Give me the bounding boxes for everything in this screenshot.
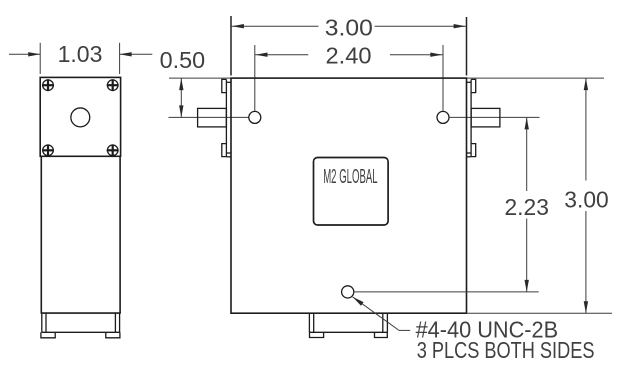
left flange plate bottom end xyxy=(226,156,231,158)
hole centerline right xyxy=(450,116,540,118)
right mounting hole xyxy=(437,111,449,123)
front base outer right xyxy=(386,313,388,332)
screw top-left xyxy=(42,79,54,91)
dim 0.50 arrow down xyxy=(179,105,183,117)
top edge extension line (left of box) xyxy=(169,77,231,79)
bottom hole centerline xyxy=(354,291,539,293)
front base inner left xyxy=(313,313,315,332)
bottom edge extension line (right of box) xyxy=(467,312,613,314)
svg-text:M2 GLOBAL: M2 GLOBAL xyxy=(323,166,377,188)
dim 2.23 arrow up xyxy=(525,117,529,129)
svg-text:0.50: 0.50 xyxy=(160,47,206,73)
right flange bottom tab xyxy=(471,144,476,157)
dim 3.00 top extension line right xyxy=(466,17,468,76)
base bottom edge xyxy=(42,331,120,333)
dim 3.00 right line lower segment xyxy=(585,211,587,313)
front base bottom edge xyxy=(309,331,387,333)
dim 3.00 top extension line left xyxy=(230,16,232,76)
bottom hole xyxy=(342,286,354,298)
dim 2.40 arrow right xyxy=(430,53,442,57)
svg-text:2.40: 2.40 xyxy=(326,43,372,69)
dim 1.03 extension line left xyxy=(39,43,41,74)
left flange top tab xyxy=(222,79,227,92)
dim 1.03 arrow right xyxy=(120,52,132,56)
dim 2.40 extension line right xyxy=(442,45,444,111)
svg-text:1.03: 1.03 xyxy=(58,41,103,67)
main box body xyxy=(231,78,467,313)
dim 1.03 arrow left xyxy=(28,52,40,56)
right flange plate edge xyxy=(470,79,472,156)
right flange plate bottom line xyxy=(467,152,472,154)
left connector body xyxy=(198,108,227,127)
dim 3.00 right arrow down xyxy=(584,301,588,313)
front left foot xyxy=(310,332,324,337)
right flange top tab xyxy=(471,79,476,92)
dim 2.23 arrow down xyxy=(525,280,529,292)
right flange plate top line xyxy=(467,81,472,83)
flange plate square xyxy=(40,77,120,156)
front right foot xyxy=(375,332,388,337)
dim 3.00 top line left segment xyxy=(231,25,319,27)
dim 2.40 arrow left xyxy=(256,53,268,57)
front base outer left xyxy=(308,313,310,332)
label plate M2 GLOBAL xyxy=(314,158,389,226)
right flange plate bottom end xyxy=(467,156,472,158)
svg-text:3.00: 3.00 xyxy=(564,186,608,212)
right connector body xyxy=(471,108,500,127)
dim 2.40 line left segment xyxy=(255,54,308,56)
left flange plate edge xyxy=(225,79,227,156)
dim 2.40 extension line left xyxy=(254,45,256,111)
base section outer left xyxy=(41,313,43,332)
left foot xyxy=(41,332,55,338)
right foot xyxy=(106,332,120,338)
leader line diagonal xyxy=(353,297,399,331)
svg-text:3.00: 3.00 xyxy=(325,15,373,41)
body bottom edge xyxy=(41,312,121,314)
dim 1.03 tail right xyxy=(120,53,153,55)
dim 1.03 extension line right xyxy=(119,43,121,74)
dim 3.00 right line upper segment xyxy=(585,78,587,180)
dim 3.00 top arrow left xyxy=(232,24,244,28)
body left edge xyxy=(40,156,42,313)
screw bottom-right xyxy=(107,144,119,156)
dim 3.00 top line right segment xyxy=(375,25,467,27)
screw top-right xyxy=(107,79,119,91)
svg-text:3 PLCS BOTH SIDES: 3 PLCS BOTH SIDES xyxy=(417,337,595,363)
leader line horizontal xyxy=(399,329,410,331)
dim 3.00 top arrow right xyxy=(454,24,466,28)
left flange plate bottom line xyxy=(226,152,231,154)
hole centerline left xyxy=(169,116,249,118)
dim 0.50 shaft xyxy=(180,78,182,117)
dim 0.50 arrow up xyxy=(179,78,183,90)
svg-text:2.23: 2.23 xyxy=(505,194,549,220)
dim 2.40 line right segment xyxy=(390,54,443,56)
base section inner left xyxy=(45,313,47,332)
left mounting hole xyxy=(249,111,261,123)
dim 3.00 right arrow up xyxy=(584,78,588,90)
flange center hole xyxy=(71,108,90,127)
leader arrowhead xyxy=(353,297,364,306)
front base inner right xyxy=(382,313,384,332)
top edge extension line (right of box) xyxy=(467,77,605,79)
dim 2.23 line upper segment xyxy=(526,117,528,191)
dim 1.03 tail left xyxy=(9,53,40,55)
left flange bottom tab xyxy=(222,144,227,157)
body right edge xyxy=(119,156,121,313)
dim 2.23 line lower segment xyxy=(526,219,528,292)
left flange plate top line xyxy=(226,81,231,83)
screw bottom-left xyxy=(42,144,54,156)
base section inner right xyxy=(114,313,116,332)
base section outer right xyxy=(119,313,121,332)
